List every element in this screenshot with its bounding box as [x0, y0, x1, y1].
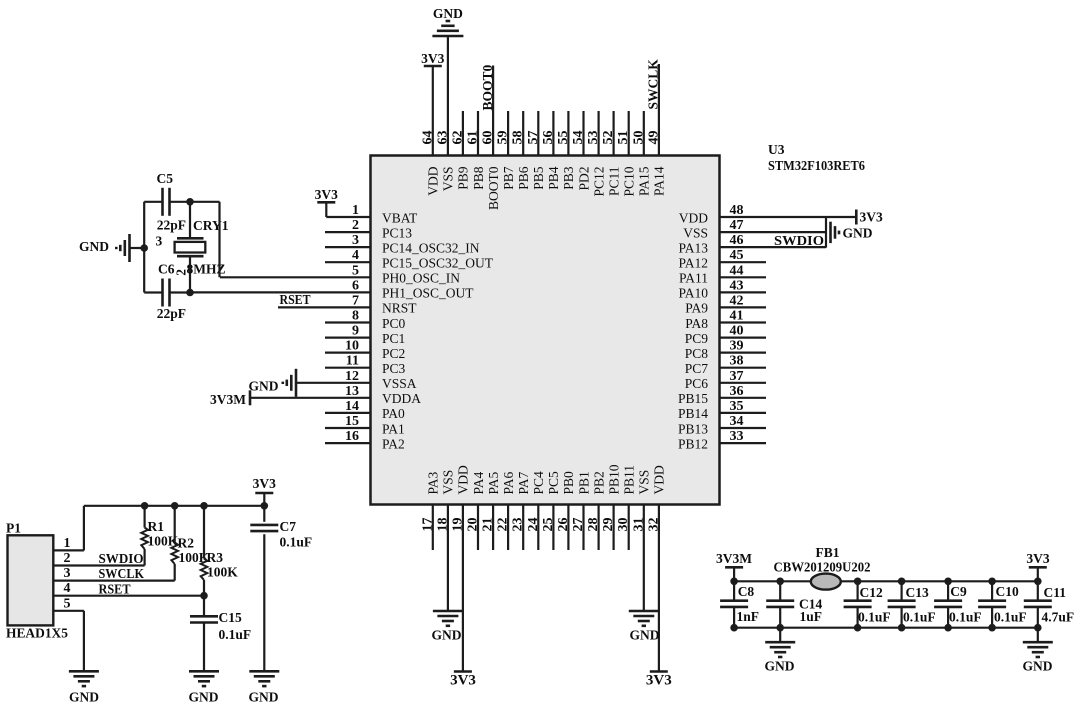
svg-text:0.1uF: 0.1uF	[280, 535, 313, 550]
svg-text:C15: C15	[219, 610, 242, 625]
U3 pin 58 (PB6)	[511, 111, 531, 190]
capacitor C8 1nF	[720, 581, 759, 627]
node junction rail / C13 top	[898, 578, 906, 586]
net label RSET at P1 pin 4	[99, 581, 131, 596]
svg-text:6: 6	[352, 278, 359, 293]
U3 pin 16 (PA2)	[325, 429, 405, 451]
svg-text:9: 9	[352, 324, 359, 339]
svg-text:8: 8	[352, 309, 359, 324]
svg-text:PH0_OSC_IN: PH0_OSC_IN	[382, 271, 460, 286]
U3 pin 38 (PC7)	[685, 354, 766, 376]
svg-text:RSET: RSET	[99, 581, 131, 596]
svg-text:CRY1: CRY1	[193, 218, 229, 233]
svg-text:SWCLK: SWCLK	[646, 59, 661, 110]
svg-text:PC15_OSC32_OUT: PC15_OSC32_OUT	[382, 256, 494, 271]
svg-text:2: 2	[64, 551, 71, 566]
U3 pin 15 (PA1)	[325, 414, 405, 436]
U3 pin 64 (VDD)	[420, 66, 440, 196]
svg-text:PB1: PB1	[576, 471, 591, 494]
svg-text:C8: C8	[738, 584, 755, 599]
svg-text:PB3: PB3	[561, 166, 576, 190]
ground GND at P1 pin 5	[69, 671, 99, 704]
svg-text:45: 45	[730, 248, 744, 263]
svg-text:R2: R2	[178, 536, 195, 551]
svg-text:SWCLK: SWCLK	[99, 566, 145, 581]
U3 pin 28 (PB2)	[586, 471, 606, 550]
svg-text:PA15: PA15	[637, 166, 652, 196]
svg-text:FB1: FB1	[816, 545, 840, 560]
svg-text:PB6: PB6	[516, 166, 531, 190]
node junction rail / C14 bottom	[776, 624, 784, 632]
wire crystal left rail	[143, 202, 145, 293]
power 3V3 at U3 pin 64	[421, 51, 444, 66]
svg-text:PA8: PA8	[685, 316, 708, 331]
svg-text:PB2: PB2	[591, 471, 606, 494]
wire VSS/SWDIO vertical at x=826	[825, 217, 827, 248]
svg-text:VBAT: VBAT	[382, 210, 418, 225]
svg-text:3V3: 3V3	[253, 476, 276, 491]
svg-text:PD2: PD2	[576, 167, 591, 191]
U3 pin 24 (PC4)	[526, 471, 546, 550]
svg-text:VDD: VDD	[456, 465, 471, 494]
svg-text:PC9: PC9	[685, 331, 709, 346]
node junction rail / R2	[171, 502, 179, 510]
net label BOOT0 at U3 pin 60	[480, 64, 495, 110]
node A junction C5 / crystal pin 3	[186, 198, 194, 206]
connector P1 part value HEAD1X5	[6, 626, 68, 641]
svg-text:PC2: PC2	[382, 346, 405, 361]
P1 pin 5 (GND)	[53, 596, 84, 611]
svg-text:PB15: PB15	[678, 391, 708, 406]
svg-text:3V3M: 3V3M	[716, 551, 752, 566]
capacitor C5	[144, 171, 190, 233]
wire FB1 to 3V3 rail	[841, 580, 1038, 582]
svg-text:36: 36	[730, 384, 744, 399]
node junction rail / C13 bottom	[898, 624, 906, 632]
svg-text:GND: GND	[79, 239, 109, 254]
wire C11 ground drop	[1037, 628, 1039, 643]
svg-text:VSSA: VSSA	[382, 376, 417, 391]
svg-text:C9: C9	[950, 584, 967, 599]
svg-text:PA6: PA6	[501, 471, 516, 494]
node junction rail / C8 top	[730, 578, 738, 586]
node junction rail / C9 top	[944, 578, 952, 586]
svg-text:40: 40	[730, 324, 744, 339]
svg-text:3V3: 3V3	[421, 51, 444, 66]
U3 pin 18 (VSS)	[435, 470, 455, 611]
svg-text:R3: R3	[207, 550, 224, 565]
svg-text:GND: GND	[432, 628, 462, 643]
svg-text:C7: C7	[280, 519, 297, 534]
svg-text:14: 14	[345, 399, 359, 414]
U3 pin 44 (PA11)	[679, 263, 766, 285]
U3 pin 52 (PC11)	[601, 111, 621, 196]
U3 pin 35 (PB14)	[678, 399, 766, 421]
svg-text:VDD: VDD	[679, 210, 708, 225]
svg-text:33: 33	[730, 429, 744, 444]
U3 pin 55 (PB3)	[556, 111, 576, 190]
capacitor C6	[144, 262, 190, 322]
svg-text:0.1uF: 0.1uF	[949, 609, 982, 624]
svg-text:PB13: PB13	[678, 421, 708, 436]
svg-text:43: 43	[730, 278, 744, 293]
svg-text:PC0: PC0	[382, 316, 406, 331]
ground GND at decoupling rail right	[1023, 642, 1053, 673]
P1 pin 4 (RSET)	[53, 581, 204, 596]
svg-text:PC13: PC13	[382, 225, 412, 240]
svg-text:R1: R1	[148, 519, 165, 534]
node junction rail / C12 bottom	[854, 624, 862, 632]
IC U3 STM32F103RET6 body	[371, 156, 720, 505]
connector P1 reference designator	[6, 521, 21, 536]
U3 pin 62 (PB9)	[450, 111, 470, 190]
capacitor C7 0.1uF	[250, 506, 312, 672]
U3 pin 31 (VSS)	[631, 470, 651, 611]
node junction rail / C10 top	[988, 578, 996, 586]
svg-text:1nF: 1nF	[737, 609, 760, 624]
node junction rail / C12 top	[854, 578, 862, 586]
U3 pin 57 (PB5)	[526, 111, 546, 190]
node junction rail / C7 3V3	[261, 502, 269, 510]
svg-text:22pF: 22pF	[157, 306, 186, 321]
svg-text:PA1: PA1	[382, 421, 405, 436]
svg-text:5: 5	[64, 596, 71, 611]
svg-text:34: 34	[730, 414, 744, 429]
U3 pin 30 (PB11)	[616, 465, 636, 550]
svg-text:PB5: PB5	[531, 166, 546, 190]
svg-text:37: 37	[730, 369, 744, 384]
wire GND to crystal left rail	[130, 247, 145, 249]
svg-text:VSS: VSS	[441, 470, 456, 495]
U3 pin 53 (PC12)	[586, 111, 606, 197]
U3 pin 48 (VDD)	[679, 203, 857, 225]
U3 pin 43 (PA10)	[678, 278, 766, 300]
U3 pin 54 (PD2)	[571, 111, 591, 191]
svg-text:PC7: PC7	[685, 361, 709, 376]
U3 pin 59 (PB7)	[496, 111, 516, 190]
connector P1 HEAD1X5 body	[8, 535, 54, 625]
svg-text:12: 12	[345, 369, 359, 384]
svg-text:C12: C12	[860, 585, 883, 600]
U3 pin 25 (PC5)	[541, 471, 561, 550]
IC U3 reference designator U3	[768, 142, 785, 157]
capacitor C15 0.1uF	[190, 596, 251, 672]
node junction rail / C11 bottom	[1034, 624, 1042, 632]
P1 pin 3 (SWCLK)	[53, 566, 174, 581]
svg-text:PB4: PB4	[546, 166, 561, 190]
U3 pin 50 (PA15)	[631, 111, 651, 196]
svg-text:PB7: PB7	[501, 166, 516, 190]
svg-text:3: 3	[156, 234, 163, 249]
svg-text:7: 7	[352, 293, 359, 308]
U3 pin 7 (NRST)	[278, 293, 417, 315]
ground GND at U3 pin 12	[249, 369, 297, 397]
svg-text:STM32F103RET6: STM32F103RET6	[768, 158, 865, 173]
U3 pin 60 (BOOT0)	[481, 66, 501, 211]
node junction rail / C11 top	[1034, 578, 1042, 586]
svg-text:PB11: PB11	[622, 465, 637, 495]
U3 pin 47 (VSS)	[683, 218, 826, 240]
U3 pin 37 (PC6)	[685, 369, 766, 391]
P1 pin 1	[53, 536, 84, 551]
IC U3 part value STM32F103RET6	[768, 158, 865, 173]
svg-text:GND: GND	[249, 379, 279, 394]
ground GND at crystal rail	[79, 234, 130, 262]
U3 pin 20 (PA4)	[466, 471, 486, 550]
ground GND at C15	[189, 671, 220, 704]
crystal CRY1 8MHZ	[156, 202, 229, 293]
U3 pin 6 (PH1_OSC_OUT)	[190, 278, 474, 300]
svg-text:PA9: PA9	[685, 301, 708, 316]
U3 pin 49 (PA14)	[646, 64, 666, 196]
svg-text:4: 4	[352, 248, 359, 263]
ferrite bead FB1 CBW201209U202	[774, 545, 871, 590]
svg-text:C10: C10	[996, 584, 1019, 599]
svg-text:PC5: PC5	[546, 471, 561, 495]
svg-text:PB0: PB0	[561, 471, 576, 495]
ground GND at C7	[249, 671, 280, 704]
capacitor C9 0.1uF	[934, 581, 982, 627]
power 3V3M at FB1 input	[716, 551, 752, 581]
svg-text:C11: C11	[1044, 585, 1067, 600]
svg-text:PC6: PC6	[685, 376, 709, 391]
U3 pin 8 (PC0)	[325, 309, 406, 331]
svg-text:42: 42	[730, 293, 744, 308]
ground GND at U3 pin 18	[432, 611, 463, 643]
svg-text:SWDIO: SWDIO	[774, 233, 824, 248]
svg-text:GND: GND	[630, 628, 660, 643]
svg-text:P1: P1	[6, 521, 21, 536]
node B junction C6 / crystal pin 2	[186, 289, 194, 297]
svg-text:GND: GND	[433, 6, 463, 21]
U3 pin 42 (PA9)	[685, 293, 766, 315]
U3 pin 46 (PA13)	[678, 233, 826, 255]
svg-text:PA12: PA12	[678, 256, 708, 271]
U3 pin 4 (PC15_OSC32_OUT)	[325, 248, 494, 270]
svg-text:3V3M: 3V3M	[210, 392, 246, 407]
svg-text:BOOT0: BOOT0	[480, 64, 495, 110]
svg-text:13: 13	[345, 384, 359, 399]
svg-text:PA4: PA4	[471, 471, 486, 494]
node junction rail / C9 bottom	[944, 624, 952, 632]
svg-text:10: 10	[345, 339, 359, 354]
svg-text:VDD: VDD	[426, 166, 441, 195]
svg-text:0.1uF: 0.1uF	[858, 609, 891, 624]
svg-text:SWDIO: SWDIO	[99, 551, 144, 566]
svg-text:PA14: PA14	[652, 166, 667, 196]
U3 pin 1 (VBAT)	[326, 203, 418, 225]
svg-text:3V3: 3V3	[315, 187, 338, 202]
net label SWDIO at U3 pin 46	[774, 233, 824, 248]
power 3V3 at U3 pin 19	[450, 672, 476, 689]
U3 pin 41 (PA8)	[685, 309, 766, 331]
svg-text:39: 39	[730, 339, 744, 354]
U3 pin 11 (PC3)	[325, 354, 406, 376]
power 3V3 at U3 pin 1	[315, 187, 338, 217]
U3 pin 17 (PA3)	[420, 471, 440, 550]
capacitor C10 0.1uF	[978, 581, 1027, 627]
svg-text:22pF: 22pF	[157, 218, 186, 233]
svg-text:11: 11	[346, 354, 359, 369]
svg-text:VDDA: VDDA	[382, 391, 421, 406]
svg-text:PA13: PA13	[678, 240, 708, 255]
svg-text:C6: C6	[158, 262, 175, 277]
svg-text:CBW201209U202: CBW201209U202	[774, 559, 871, 574]
svg-text:3: 3	[64, 566, 71, 581]
svg-text:PA0: PA0	[382, 406, 405, 421]
svg-text:PC8: PC8	[685, 346, 709, 361]
svg-text:1: 1	[64, 536, 71, 551]
svg-text:C5: C5	[157, 171, 174, 186]
svg-text:PA5: PA5	[486, 471, 501, 494]
node junction rail / C8 bottom	[730, 624, 738, 632]
U3 pin 2 (PC13)	[325, 218, 412, 240]
node junction rail / C10 bottom	[988, 624, 996, 632]
U3 pin 12 (VSSA)	[296, 369, 417, 391]
node junction rail / C14 top	[776, 578, 784, 586]
power 3V3 at U3 pin 48	[856, 209, 883, 224]
svg-text:GND: GND	[1023, 659, 1053, 674]
U3 pin 40 (PC9)	[685, 324, 766, 346]
svg-text:PB9: PB9	[456, 166, 471, 190]
power 3V3M at U3 pin 13	[210, 390, 250, 407]
net label SWCLK at U3 pin 49	[646, 59, 661, 110]
power 3V3 at U3 pin 32	[646, 672, 672, 689]
wire P1 pin 5 drop to ground	[83, 611, 85, 672]
svg-text:PA2: PA2	[382, 436, 405, 451]
svg-text:BOOT0: BOOT0	[486, 166, 501, 210]
net label SWCLK at P1 pin 3	[99, 566, 145, 581]
node junction R3 / C15 / P1 pin 4	[200, 592, 208, 600]
svg-text:4.7uF: 4.7uF	[1042, 609, 1075, 624]
power 3V3 at decoupling rail	[1026, 551, 1049, 581]
wire C14 ground drop	[779, 628, 781, 643]
U3 pin 27 (PB1)	[571, 471, 591, 550]
svg-text:PC11: PC11	[606, 167, 621, 197]
svg-text:VSS: VSS	[683, 225, 708, 240]
svg-text:0.1uF: 0.1uF	[219, 627, 252, 642]
svg-text:PC1: PC1	[382, 331, 405, 346]
svg-text:PA11: PA11	[679, 271, 708, 286]
U3 pin 61 (PB8)	[466, 111, 486, 190]
net label SWDIO at P1 pin 2	[99, 551, 144, 566]
U3 pin 29 (PB10)	[601, 464, 621, 550]
svg-text:U3: U3	[768, 142, 785, 157]
wire decoupling ground rail	[734, 627, 1038, 629]
svg-text:C13: C13	[906, 585, 929, 600]
capacitor C13 0.1uF	[888, 581, 936, 627]
svg-text:PC10: PC10	[622, 166, 637, 196]
node junction crystal left rail / GND	[140, 244, 148, 252]
U3 pin 9 (PC1)	[325, 324, 405, 346]
svg-text:PB8: PB8	[471, 166, 486, 190]
U3 pin 39 (PC8)	[685, 339, 766, 361]
svg-text:VSS: VSS	[441, 167, 456, 192]
svg-text:GND: GND	[69, 690, 99, 705]
node junction rail / R1	[141, 502, 149, 510]
svg-text:PC3: PC3	[382, 361, 406, 376]
U3 pin 22 (PA6)	[496, 471, 516, 550]
svg-text:PB12: PB12	[678, 436, 708, 451]
ground GND at U3 pin 63	[432, 6, 463, 36]
ground GND at U3 pin 31	[629, 611, 660, 643]
svg-text:35: 35	[730, 399, 744, 414]
U3 pin 26 (PB0)	[556, 471, 576, 550]
svg-text:VDD: VDD	[652, 465, 667, 494]
resistor R3 100K	[201, 506, 239, 596]
svg-text:47: 47	[730, 218, 744, 233]
svg-text:38: 38	[730, 354, 744, 369]
ground GND at U3 pin 47	[831, 222, 873, 243]
svg-text:PB14: PB14	[678, 406, 708, 421]
svg-text:GND: GND	[843, 226, 873, 241]
svg-text:4: 4	[64, 581, 71, 596]
capacitor C14 1uF	[766, 581, 822, 627]
svg-text:RSET: RSET	[280, 292, 311, 307]
net label RSET at U3 pin 7	[280, 292, 311, 307]
power 3V3 at pull-up rail	[253, 476, 276, 506]
U3 pin 34 (PB13)	[678, 414, 766, 436]
U3 pin 5 (PH0_OSC_IN)	[220, 263, 460, 285]
svg-text:3V3: 3V3	[450, 673, 476, 689]
svg-text:VSS: VSS	[637, 470, 652, 495]
wire crystal node A to U3 pin 5	[190, 202, 220, 277]
U3 pin 36 (PB15)	[678, 384, 766, 406]
U3 pin 45 (PA12)	[678, 248, 766, 270]
U3 pin 13 (VDDA)	[250, 384, 421, 406]
svg-text:GND: GND	[249, 690, 279, 705]
svg-text:5: 5	[352, 263, 359, 278]
U3 pin 19 (VDD)	[450, 465, 470, 671]
U3 pin 10 (PC2)	[325, 339, 405, 361]
wire 3V3 pull-up rail	[84, 505, 264, 507]
U3 pin 63 (VSS)	[435, 36, 455, 191]
resistor R2 100K	[171, 506, 209, 581]
svg-text:15: 15	[345, 414, 359, 429]
U3 pin 21 (PA5)	[481, 471, 501, 550]
svg-text:PA10: PA10	[678, 286, 708, 301]
svg-text:PC14_OSC32_IN: PC14_OSC32_IN	[382, 240, 480, 255]
svg-text:16: 16	[345, 429, 359, 444]
U3 pin 14 (PA0)	[325, 399, 405, 421]
svg-text:1uF: 1uF	[800, 609, 823, 624]
wire 3V3M rail to FB1	[734, 580, 811, 582]
svg-text:41: 41	[730, 309, 744, 324]
svg-text:0.1uF: 0.1uF	[903, 609, 936, 624]
svg-text:PH1_OSC_OUT: PH1_OSC_OUT	[382, 286, 474, 301]
node junction rail / R3	[200, 502, 208, 510]
U3 pin 51 (PC10)	[616, 111, 636, 197]
capacitor C11 4.7uF	[1024, 581, 1074, 627]
svg-text:3: 3	[352, 233, 359, 248]
svg-text:PA3: PA3	[426, 471, 441, 494]
svg-text:46: 46	[730, 233, 744, 248]
svg-text:0.1uF: 0.1uF	[994, 609, 1027, 624]
resistor R1 100K	[141, 506, 178, 566]
svg-text:PB10: PB10	[606, 464, 621, 494]
U3 pin 3 (PC14_OSC32_IN)	[325, 233, 480, 255]
P1 pin 2 (SWDIO)	[53, 551, 144, 566]
capacitor C12 0.1uF	[844, 581, 891, 627]
svg-text:PA7: PA7	[516, 471, 531, 494]
svg-text:HEAD1X5: HEAD1X5	[6, 626, 68, 641]
U3 pin 33 (PB12)	[678, 429, 766, 451]
svg-text:NRST: NRST	[382, 301, 417, 316]
svg-text:PC4: PC4	[531, 471, 546, 495]
svg-text:100K: 100K	[207, 565, 238, 580]
svg-text:1: 1	[352, 203, 359, 218]
svg-text:GND: GND	[765, 659, 795, 674]
